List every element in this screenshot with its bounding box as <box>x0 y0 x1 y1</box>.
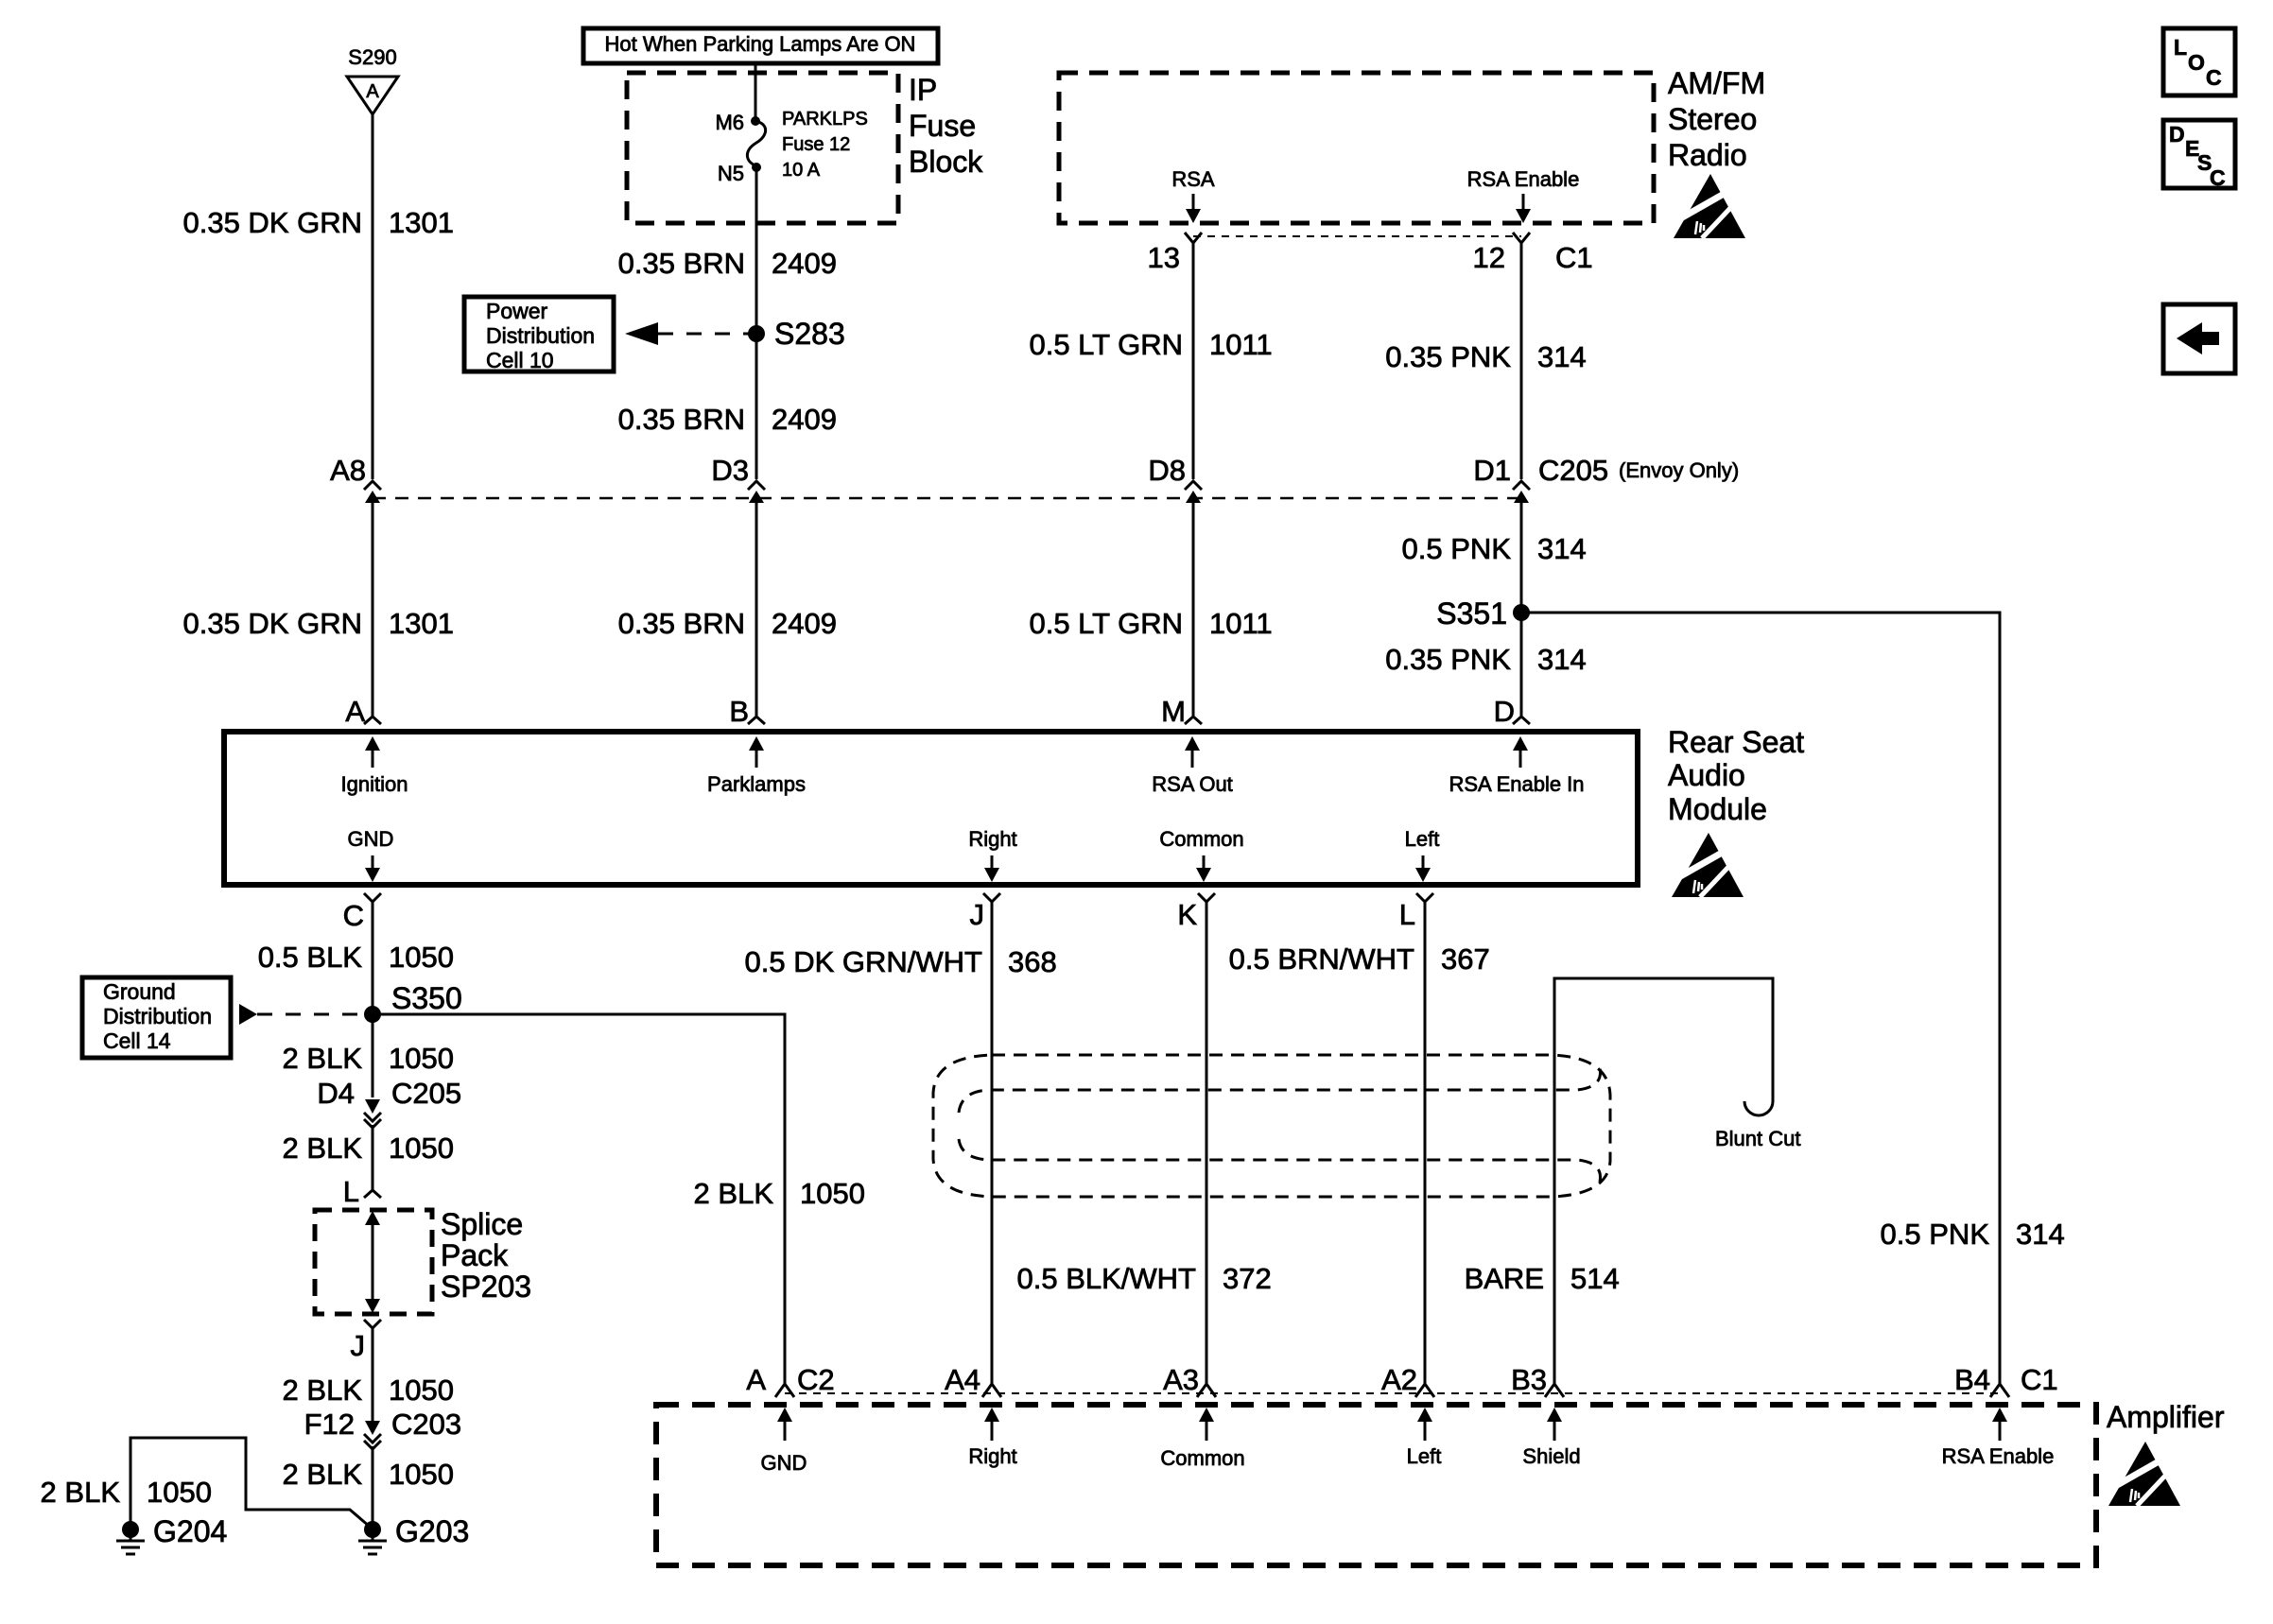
wire 0.5 BRN/WHT 367 <box>1424 902 1427 1384</box>
wire 0.5 PNK 314 (D1 to S351) <box>1520 498 1523 716</box>
shield outer capsule <box>933 1055 1610 1197</box>
svg-text:BARE: BARE <box>1465 1262 1544 1295</box>
svg-text:D3: D3 <box>711 454 749 487</box>
svg-text:GND: GND <box>761 1451 807 1475</box>
svg-text:D: D <box>2169 122 2185 147</box>
wire dashed connector line <box>373 497 1521 500</box>
connector chevron pin A3 <box>1197 1384 1216 1397</box>
svg-text:0.5 BLK/WHT: 0.5 BLK/WHT <box>1017 1262 1197 1295</box>
svg-text:Common: Common <box>1159 827 1243 851</box>
ESD symbol (RSAM) <box>1672 833 1744 897</box>
arrow into amp pin A4 (Right) <box>991 1422 994 1441</box>
arrow into amp pin A3 (Common) <box>1206 1422 1208 1441</box>
svg-text:2 BLK: 2 BLK <box>283 1132 363 1165</box>
svg-text:Parklamps: Parklamps <box>707 772 806 796</box>
connector triangle A (S290) <box>347 77 398 114</box>
svg-text:S350: S350 <box>391 981 462 1015</box>
svg-text:RSA Enable: RSA Enable <box>1942 1444 2055 1468</box>
svg-text:S290: S290 <box>348 45 396 69</box>
svg-text:Block: Block <box>909 145 983 179</box>
svg-text:C1: C1 <box>2021 1363 2058 1396</box>
connector chevron out of pin K <box>1198 893 1215 902</box>
connector D1 (chevron + arrow) <box>1513 481 1530 515</box>
svg-text:Fuse: Fuse <box>909 109 976 143</box>
connector D3 (chevron + arrow) <box>748 481 765 515</box>
svg-text:C: C <box>343 899 364 932</box>
svg-text:B: B <box>729 695 749 728</box>
wire BARE 514 shield drain <box>1554 978 1773 1384</box>
svg-text:A4: A4 <box>945 1363 980 1396</box>
node N5 <box>752 163 761 172</box>
svg-text:Left: Left <box>1407 1444 1442 1468</box>
wire S351 to amplifier RSA Enable <box>1521 613 2000 1384</box>
wire G204 branch <box>130 1438 370 1527</box>
connector chevron pin A (amp GND) <box>775 1384 794 1397</box>
svg-text:Blunt Cut: Blunt Cut <box>1715 1127 1801 1150</box>
AM/FM Stereo Radio dashed box <box>1059 73 1654 223</box>
svg-text:D4: D4 <box>317 1077 355 1110</box>
svg-text:0.5 PNK: 0.5 PNK <box>1402 532 1512 565</box>
ESD symbol (amplifier) <box>2108 1442 2180 1506</box>
arrow into amp pin B3 (Shield) <box>1553 1422 1556 1441</box>
dashed arrow from Ground Distribution box <box>239 1004 257 1025</box>
node M6 <box>751 116 760 126</box>
wire 0.5 BLK/WHT 372 <box>1206 902 1208 1384</box>
shield inner line lower <box>959 1139 1601 1182</box>
LOC box <box>2163 28 2235 95</box>
svg-text:PARKLPS: PARKLPS <box>782 109 868 130</box>
node S283 <box>748 325 765 342</box>
blunt cut hook <box>1744 1101 1773 1115</box>
svg-text:1301: 1301 <box>389 607 454 640</box>
svg-text:C205: C205 <box>1538 454 1608 487</box>
svg-text:A3: A3 <box>1163 1363 1199 1396</box>
wire 2 BLK 1050 (C205 to splice pack) <box>372 1125 374 1190</box>
wire 0.35 DK GRN 1301 (lower) <box>372 498 374 716</box>
ground G203 <box>364 1521 381 1538</box>
svg-text:Distribution: Distribution <box>486 323 595 348</box>
svg-text:1050: 1050 <box>389 1373 454 1407</box>
svg-text:Module: Module <box>1668 792 1767 826</box>
svg-text:A8: A8 <box>330 454 366 487</box>
wire through splice pack <box>372 1224 374 1300</box>
connector chevron below splice pack <box>364 1320 381 1328</box>
arrow RSA Enable down <box>1522 194 1525 210</box>
arrow into pin D (RSA Enable In) <box>1519 750 1522 768</box>
svg-text:1050: 1050 <box>389 1132 454 1165</box>
svg-text:Hot When Parking Lamps Are ON: Hot When Parking Lamps Are ON <box>605 32 916 56</box>
svg-text:Common: Common <box>1160 1446 1244 1470</box>
svg-text:L: L <box>343 1175 359 1208</box>
svg-text:Fuse 12: Fuse 12 <box>782 134 850 155</box>
wire 0.5 BLK 1050 <box>372 902 374 1097</box>
ESD symbol (radio) <box>1674 174 1745 238</box>
node S350 <box>364 1006 381 1023</box>
svg-text:2 BLK: 2 BLK <box>283 1458 363 1491</box>
Amplifier dashed box <box>656 1405 2096 1565</box>
wire 0.5 DK GRN/WHT 368 <box>991 902 994 1384</box>
svg-text:O: O <box>2188 50 2205 75</box>
svg-text:514: 514 <box>1570 1262 1620 1295</box>
svg-text:1050: 1050 <box>147 1476 212 1509</box>
svg-text:AM/FM: AM/FM <box>1668 66 1765 100</box>
svg-text:L: L <box>2174 35 2187 60</box>
connector chevron pin B3 <box>1545 1384 1564 1397</box>
wire 0.35 BRN 2409 (lower) <box>755 498 758 716</box>
wire 2 BLK 1050 (splice to C203) <box>372 1328 374 1424</box>
svg-text:C: C <box>2210 165 2226 190</box>
wire 0.35 DK GRN 1301 (upper) <box>372 114 374 479</box>
svg-text:0.35 DK GRN: 0.35 DK GRN <box>182 206 362 239</box>
wire S350 to amplifier GND <box>373 1014 785 1384</box>
svg-text:1011: 1011 <box>1209 607 1273 640</box>
svg-text:2 BLK: 2 BLK <box>41 1476 121 1509</box>
svg-text:367: 367 <box>1441 942 1490 976</box>
svg-text:K: K <box>1177 898 1197 931</box>
svg-text:0.5 BRN/WHT: 0.5 BRN/WHT <box>1229 942 1414 976</box>
connector C2/C1 dotted line <box>785 1392 2000 1394</box>
svg-text:0.5 DK GRN/WHT: 0.5 DK GRN/WHT <box>745 945 983 978</box>
svg-text:10 A: 10 A <box>782 160 821 181</box>
connector chevron out of pin L <box>1416 893 1433 902</box>
svg-text:Cell 14: Cell 14 <box>103 1028 171 1053</box>
connector chevron pin B4 <box>1990 1384 2009 1397</box>
wire 0.5 LT GRN 1011 (upper) <box>1192 243 1195 479</box>
svg-text:0.35 BRN: 0.35 BRN <box>618 247 745 280</box>
connector chevron into RSAM pin B <box>748 717 765 724</box>
dashed arrow to Power Distribution <box>625 322 658 345</box>
svg-text:D: D <box>1494 695 1515 728</box>
connector C1 dotted line <box>1193 235 1521 237</box>
svg-text:0.35 BRN: 0.35 BRN <box>618 607 745 640</box>
connector chevron pin A2 <box>1415 1384 1434 1397</box>
svg-text:2 BLK: 2 BLK <box>283 1042 363 1075</box>
Power Distribution Cell 10 box <box>464 297 614 371</box>
svg-text:B3: B3 <box>1511 1363 1547 1396</box>
svg-text:S283: S283 <box>774 317 845 351</box>
svg-text:0.5 LT GRN: 0.5 LT GRN <box>1029 607 1183 640</box>
svg-text:314: 314 <box>1537 643 1587 676</box>
svg-text:G204: G204 <box>153 1514 227 1548</box>
svg-text:Radio: Radio <box>1668 138 1747 172</box>
svg-text:SP203: SP203 <box>441 1270 531 1304</box>
svg-text:IP: IP <box>909 73 937 107</box>
back-arrow box <box>2163 304 2235 373</box>
svg-text:A: A <box>345 695 365 728</box>
svg-text:Pack: Pack <box>441 1238 509 1272</box>
svg-text:N5: N5 <box>718 162 744 185</box>
svg-text:Cell 10: Cell 10 <box>486 348 554 372</box>
svg-text:A: A <box>366 81 379 102</box>
svg-text:13: 13 <box>1148 241 1180 274</box>
connector chevron into RSAM pin D <box>1513 717 1530 724</box>
svg-text:Amplifier: Amplifier <box>2107 1400 2225 1434</box>
svg-text:F12: F12 <box>304 1408 355 1441</box>
arrow into pin M (RSA Out) <box>1191 750 1194 768</box>
svg-text:Splice: Splice <box>441 1207 523 1241</box>
svg-text:Power: Power <box>486 299 548 323</box>
svg-text:D8: D8 <box>1148 454 1186 487</box>
svg-text:C205: C205 <box>391 1077 461 1110</box>
arrow into amp pin B4 (RSA Enable) <box>1999 1422 2002 1441</box>
svg-text:2409: 2409 <box>772 403 837 436</box>
svg-text:M6: M6 <box>715 111 744 134</box>
wire 0.5 LT GRN 1011 (lower) <box>1192 498 1195 716</box>
svg-text:Rear Seat: Rear Seat <box>1668 725 1804 759</box>
node S351 <box>1513 604 1530 621</box>
connector D8 (chevron + arrow) <box>1185 481 1202 515</box>
svg-text:Shield: Shield <box>1522 1444 1580 1468</box>
svg-text:GND: GND <box>348 827 394 851</box>
connector chevron out of pin C <box>364 893 381 902</box>
svg-text:2 BLK: 2 BLK <box>283 1373 363 1407</box>
wire from hot box to fuse <box>755 63 757 121</box>
svg-text:1301: 1301 <box>389 206 454 239</box>
svg-text:G203: G203 <box>395 1514 469 1548</box>
Splice Pack SP203 dashed box <box>315 1210 432 1314</box>
Rear Seat Audio Module box <box>224 732 1638 885</box>
svg-text:Right: Right <box>968 1444 1016 1468</box>
arrow out of pin L (Left) <box>1422 855 1425 868</box>
connector chevron out of pin J <box>983 893 1000 902</box>
shield inner line upper <box>959 1068 1601 1113</box>
svg-text:0.5 BLK: 0.5 BLK <box>258 941 363 974</box>
svg-text:Stereo: Stereo <box>1668 102 1757 136</box>
svg-text:1050: 1050 <box>389 1458 454 1491</box>
connector chevron pin 13 <box>1185 233 1202 243</box>
svg-text:B4: B4 <box>1954 1363 1990 1396</box>
svg-text:0.5 LT GRN: 0.5 LT GRN <box>1029 328 1183 361</box>
arrow out of pin C (GND) <box>372 855 374 868</box>
svg-text:0.5 PNK: 0.5 PNK <box>1881 1218 1990 1251</box>
svg-text:1050: 1050 <box>800 1177 865 1210</box>
svg-text:2409: 2409 <box>772 607 837 640</box>
connector chevron into RSAM pin M <box>1185 717 1202 724</box>
wire 0.35 BRN 2409 (fuse to S283) <box>755 167 758 479</box>
arrow out of pin J (Right) <box>991 855 994 868</box>
svg-text:A: A <box>746 1363 766 1396</box>
svg-text:0.35 BRN: 0.35 BRN <box>618 403 745 436</box>
svg-text:RSA Enable: RSA Enable <box>1467 167 1580 191</box>
connector F12/C203 (arrow + chevrons) <box>365 1421 380 1435</box>
svg-text:RSA Out: RSA Out <box>1152 772 1233 796</box>
arrow into amp pin A (GND) <box>784 1422 787 1441</box>
svg-text:Audio: Audio <box>1668 758 1745 792</box>
svg-text:2 BLK: 2 BLK <box>694 1177 774 1210</box>
svg-text:C203: C203 <box>391 1408 461 1441</box>
wire 2 BLK 1050 (C203 to G203) <box>372 1446 374 1529</box>
svg-text:J: J <box>970 898 985 931</box>
arrow RSA down <box>1192 194 1195 210</box>
svg-text:D1: D1 <box>1473 454 1511 487</box>
arrow out of pin K (Common) <box>1203 855 1206 868</box>
svg-text:A2: A2 <box>1381 1363 1417 1396</box>
svg-text:(Envoy Only): (Envoy Only) <box>1619 458 1739 482</box>
svg-text:C2: C2 <box>797 1363 835 1396</box>
arrow into pin B (Parklamps) <box>755 750 758 768</box>
svg-text:Ground: Ground <box>103 979 176 1004</box>
svg-text:1050: 1050 <box>389 941 454 974</box>
arrow into amp pin A2 (Left) <box>1424 1422 1427 1441</box>
svg-text:M: M <box>1161 695 1186 728</box>
connector D4/C205 (arrow + chevrons) <box>365 1099 380 1114</box>
connector chevron pin A4 <box>982 1384 1001 1397</box>
DESC box <box>2163 120 2235 188</box>
connector A8 (chevron + arrow) <box>364 481 381 515</box>
svg-text:Right: Right <box>968 827 1016 851</box>
svg-text:368: 368 <box>1008 945 1057 978</box>
svg-text:314: 314 <box>1537 340 1587 373</box>
svg-text:S351: S351 <box>1436 596 1507 631</box>
svg-text:L: L <box>1399 898 1415 931</box>
connector chevron into splice pack <box>364 1190 381 1198</box>
svg-text:Left: Left <box>1405 827 1440 851</box>
arrow into pin A (Ignition) <box>372 750 374 768</box>
wire 0.35 PNK 314 (upper) <box>1520 243 1523 479</box>
Ground Distribution Cell 14 box <box>82 977 231 1058</box>
svg-text:1011: 1011 <box>1209 328 1273 361</box>
svg-text:J: J <box>351 1329 366 1362</box>
svg-text:0.35 DK GRN: 0.35 DK GRN <box>182 607 362 640</box>
svg-text:RSA: RSA <box>1171 167 1215 191</box>
svg-text:RSA Enable In: RSA Enable In <box>1449 772 1584 796</box>
fuse PARKLPS Fuse 12 10A <box>747 121 765 166</box>
ground G204 <box>122 1521 139 1538</box>
connector chevron pin 12 <box>1513 233 1530 243</box>
svg-text:0.35 PNK: 0.35 PNK <box>1385 643 1511 676</box>
svg-text:Distribution: Distribution <box>103 1004 212 1028</box>
svg-text:2409: 2409 <box>772 247 837 280</box>
svg-text:314: 314 <box>2016 1218 2065 1251</box>
IP fuse block dashed box <box>627 73 898 223</box>
svg-text:1050: 1050 <box>389 1042 454 1075</box>
svg-text:12: 12 <box>1473 241 1505 274</box>
svg-text:C: C <box>2206 65 2222 90</box>
svg-text:Ignition: Ignition <box>341 772 408 796</box>
svg-text:C1: C1 <box>1555 241 1593 274</box>
node Hot When Parking Lamps Are ON <box>583 28 938 63</box>
svg-text:314: 314 <box>1537 532 1587 565</box>
svg-text:0.35 PNK: 0.35 PNK <box>1385 340 1511 373</box>
connector chevron into RSAM pin A <box>364 709 381 724</box>
svg-text:372: 372 <box>1223 1262 1272 1295</box>
